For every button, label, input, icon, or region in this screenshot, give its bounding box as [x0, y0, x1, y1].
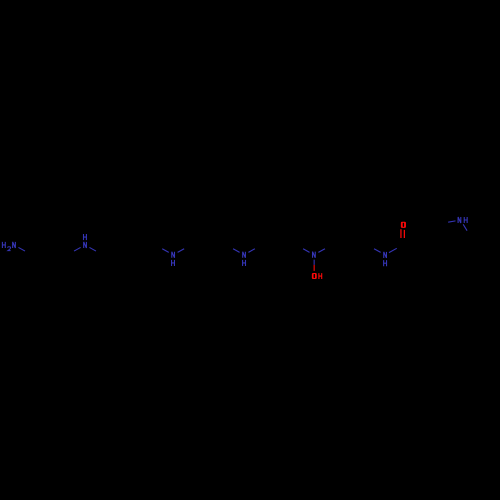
wire N-C2 half-bond: [448, 221, 455, 222]
primary amine N1 (H2N label): [2, 242, 5, 248]
indole N (NH label): [458, 217, 461, 223]
hydroxyl OH label: [312, 273, 317, 279]
secondary amine N4 (NH, H below): [243, 252, 246, 258]
wire N6-C(=O) half-bond right: [389, 248, 397, 252]
wire N5-C half-bond right: [318, 249, 325, 253]
wire N4-C half-bond right: [248, 249, 254, 253]
wire N5-O bond lower half (red): [313, 265, 315, 271]
secondary amine N3 (NH, H below): [172, 252, 175, 258]
C=O double bond red halves: [400, 229, 402, 238]
hydroxylamine N5 (N-OH): [313, 252, 316, 258]
amide N6 (NH, H below): [384, 252, 387, 258]
wire C-N6 half-bond left: [374, 249, 381, 253]
wire C-N5 half-bond left: [303, 249, 309, 253]
wire N1-C half-bond: [18, 247, 25, 251]
wire C-N4 half-bond left: [233, 249, 240, 253]
wire C-N2 half-bond left: [74, 247, 81, 251]
wire N2-C half-bond right: [89, 247, 96, 251]
wire C-N3 half-bond left: [162, 249, 169, 253]
carbonyl O label: [401, 222, 406, 228]
secondary amine N2 (NH, H above): [84, 234, 87, 240]
wire N3-C half-bond right: [178, 249, 185, 253]
wire N5-O bond upper half (blue): [313, 260, 315, 265]
wire N-C7a half-bond: [463, 224, 467, 230]
